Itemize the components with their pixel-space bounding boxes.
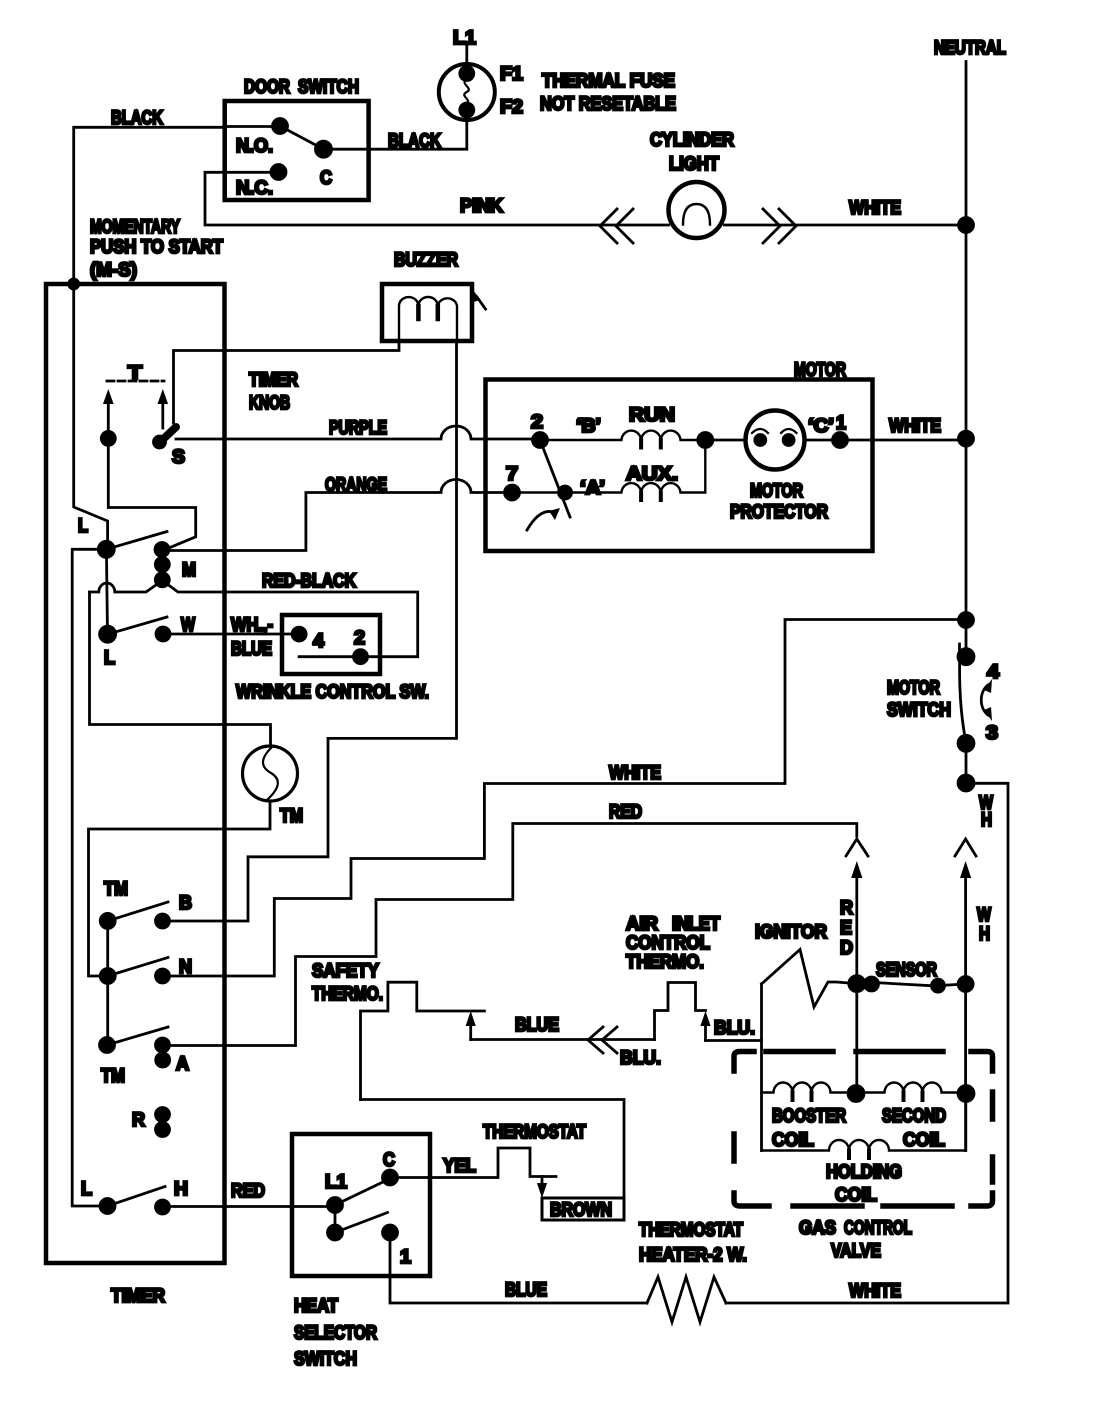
- contact B fixed: [156, 914, 170, 928]
- svg-text:L: L: [104, 648, 115, 669]
- junction motor switch top: [959, 613, 974, 628]
- motor AUX winding: [512, 440, 705, 500]
- svg-text:HEAT: HEAT: [294, 1296, 338, 1317]
- svg-text:PROTECTOR: PROTECTOR: [730, 502, 828, 523]
- connector chevrons right of cylinder light: [763, 209, 796, 243]
- junction neutral/pink: [959, 218, 974, 233]
- label L (below W pivot): [104, 648, 115, 669]
- label MOMENTARY PUSH TO START (M-S): [90, 217, 223, 281]
- svg-text:CYLINDER: CYLINDER: [650, 130, 734, 151]
- label TM (A): [101, 1066, 125, 1087]
- heat selector lower pivot: [328, 1205, 343, 1240]
- label W H (upper right): [979, 793, 993, 831]
- air inlet control thermo symbol: [655, 983, 706, 1040]
- label TM (light): [280, 806, 303, 827]
- wire buzzer to B contact staircase: [163, 341, 457, 921]
- svg-text:WHITE: WHITE: [889, 416, 941, 437]
- svg-text:2: 2: [531, 412, 543, 433]
- label R E D (vertical): [840, 898, 853, 959]
- svg-text:7: 7: [506, 464, 518, 485]
- wire RED vertical with arrow: [851, 861, 862, 1094]
- contact R pair: [156, 1108, 170, 1137]
- svg-text:‘A’: ‘A’: [580, 478, 605, 499]
- door switch contact C: [316, 141, 333, 189]
- blade A: [107, 1027, 168, 1045]
- svg-text:CONTROL: CONTROL: [844, 1218, 912, 1239]
- label WH.,- BLUE: [231, 615, 273, 660]
- svg-text:RED: RED: [609, 802, 642, 823]
- svg-text:SENSOR: SENSOR: [876, 960, 937, 981]
- svg-text:PUSH TO START: PUSH TO START: [90, 237, 223, 258]
- svg-text:MOTOR: MOTOR: [887, 678, 940, 699]
- label THERMAL FUSE NOT RESETABLE: [540, 71, 676, 115]
- svg-text:W: W: [977, 905, 991, 926]
- svg-text:H: H: [981, 810, 992, 831]
- svg-text:BUZZER: BUZZER: [394, 250, 458, 271]
- label THERMOSTAT: [483, 1122, 586, 1143]
- svg-text:THERMOSTAT: THERMOSTAT: [639, 1220, 743, 1241]
- svg-text:MOMENTARY: MOMENTARY: [90, 217, 180, 238]
- label MOTOR SWITCH: [887, 678, 951, 721]
- junction booster/second/red: [848, 1086, 864, 1102]
- wire TM light bottom to N pivot: [89, 801, 271, 976]
- contact H fixed: [156, 1200, 170, 1214]
- motor terminal 1: [833, 413, 848, 448]
- wire ORANGE M to motor terminal 7: [164, 480, 512, 551]
- wrinkle control terminal 2: [354, 628, 368, 664]
- wire red-black bus to TM light top: [90, 592, 271, 746]
- label MOTOR PROTECTOR: [730, 481, 828, 523]
- label N: [179, 957, 192, 978]
- label 'A': [580, 478, 605, 499]
- svg-text:ORANGE: ORANGE: [325, 475, 387, 496]
- second coil: [863, 1083, 959, 1152]
- cylinder light: [669, 182, 725, 238]
- label RED-BLACK: [262, 571, 356, 592]
- wire protector to terminal 1: [805, 439, 841, 442]
- wire BLU to ignitor: [706, 1039, 762, 1042]
- door switch blade N.O.-C: [280, 126, 324, 149]
- svg-text:BLU.: BLU.: [620, 1048, 661, 1069]
- svg-text:SWITCH: SWITCH: [298, 77, 359, 98]
- svg-text:THERMO.: THERMO.: [626, 952, 704, 973]
- wire BLACK from door switch to timer bus: [74, 127, 280, 283]
- contact TM/A pivot: [100, 1038, 115, 1053]
- label YEL: [443, 1156, 476, 1177]
- label L (bottom): [81, 1179, 92, 1200]
- buzzer coil: [399, 297, 457, 341]
- gas control valve dashed enclosure: [734, 1052, 993, 1207]
- label GAS CONTROL VALVE: [799, 1218, 912, 1262]
- junction sensor right: [958, 977, 973, 992]
- heat selector terminal C: [383, 1150, 398, 1185]
- svg-text:TIMER: TIMER: [111, 1286, 165, 1307]
- svg-text:R: R: [840, 898, 853, 919]
- label WHITE (top): [849, 198, 901, 219]
- wire thermal fuse to door switch C (BLACK): [324, 120, 467, 149]
- svg-text:THERMO.: THERMO.: [312, 984, 383, 1005]
- door switch contact N.O.: [236, 119, 288, 158]
- label DOOR SWITCH: [244, 77, 359, 98]
- wire WH sensor line with arrow: [960, 861, 971, 1151]
- wrinkle control switch box: [282, 615, 380, 674]
- svg-text:TM: TM: [104, 879, 128, 900]
- label R: [132, 1110, 145, 1131]
- label BLUE (bottom): [505, 1280, 547, 1301]
- wrinkle control inner wire: [299, 655, 353, 658]
- label B: [179, 893, 192, 914]
- svg-text:COIL: COIL: [903, 1130, 945, 1151]
- label THERMOSTAT HEATER-2 W.: [639, 1220, 747, 1266]
- junction dot left arrow: [101, 431, 115, 445]
- contact W fixed: [156, 627, 170, 641]
- label A: [176, 1054, 189, 1075]
- wire white return right side: [726, 783, 1008, 1303]
- blade B: [108, 902, 168, 921]
- svg-text:RED: RED: [231, 1181, 265, 1202]
- motor terminal 7: [505, 464, 520, 500]
- wire BLUE safety thermo to air inlet thermo: [471, 1038, 655, 1041]
- label MOTOR: [794, 360, 846, 381]
- svg-text:COIL: COIL: [835, 1185, 877, 1206]
- svg-text:R: R: [132, 1110, 145, 1131]
- label WHITE (mid): [609, 763, 661, 784]
- wire RED-BLACK M contact to wrinkle control 2: [90, 581, 418, 657]
- motor box: [486, 380, 873, 552]
- label TIMER: [111, 1286, 165, 1307]
- wire WHITE N contact staircase to motor switch: [163, 620, 967, 977]
- svg-text:SAFETY: SAFETY: [312, 961, 379, 982]
- buzzer flag arrow: [470, 286, 486, 309]
- wire WH-BLUE W contact to wrinkle control 4: [163, 633, 299, 636]
- label M: [182, 560, 196, 581]
- label L (upper): [78, 516, 88, 537]
- svg-text:F1: F1: [500, 64, 523, 85]
- sensor pivot: [865, 977, 879, 991]
- motor switch contact 3: [958, 723, 998, 751]
- heat selector switch box: [292, 1134, 430, 1276]
- wire neutral to motor switch 4: [965, 620, 968, 657]
- svg-text:HOLDING: HOLDING: [826, 1162, 902, 1183]
- svg-text:TIMER: TIMER: [249, 370, 298, 391]
- label TM (B): [104, 879, 128, 900]
- motor terminal 2: [531, 412, 548, 448]
- wire push-start linkage to M contact: [108, 438, 195, 550]
- svg-text:TM: TM: [101, 1066, 125, 1087]
- wire NEUTRAL vertical: [965, 62, 968, 621]
- label ORANGE: [325, 475, 387, 496]
- safety thermo arrow to BLUE: [466, 1011, 476, 1040]
- contact TM/B pivot: [100, 913, 115, 928]
- svg-text:D: D: [840, 938, 853, 959]
- safety thermostat symbol: [361, 982, 485, 1099]
- label 'B': [576, 416, 601, 437]
- svg-text:BOOSTER: BOOSTER: [772, 1106, 846, 1127]
- svg-text:N.C.: N.C.: [236, 178, 273, 199]
- connector chevron WH line: [955, 839, 976, 856]
- svg-text:L1: L1: [325, 1172, 347, 1193]
- motor switch contact 4: [958, 649, 999, 683]
- label S: [172, 447, 185, 468]
- motor switch rotation arc: [981, 679, 992, 721]
- contact S blade: [154, 427, 177, 448]
- svg-text:SWITCH: SWITCH: [294, 1349, 357, 1370]
- svg-text:B: B: [179, 893, 192, 914]
- svg-text:BLACK: BLACK: [388, 131, 441, 152]
- label PURPLE: [329, 418, 387, 439]
- timer knob T symbol: [107, 363, 164, 384]
- label BLACK (left): [111, 108, 163, 129]
- blade N: [108, 958, 168, 977]
- contact W pivot: [100, 626, 116, 642]
- label 'C': [808, 416, 834, 437]
- blade L-H: [108, 1187, 166, 1207]
- wire bus black jog to L pivot: [74, 284, 108, 543]
- wire WHITE cylinder light to neutral: [725, 224, 967, 227]
- svg-text:1: 1: [400, 1247, 411, 1268]
- label WRINKLE CONTROL SW.: [236, 682, 429, 703]
- ignitor: [762, 950, 857, 1008]
- svg-text:4: 4: [987, 662, 999, 683]
- wire RED H contact to heat selector L1: [163, 1205, 336, 1208]
- sensor fixed contact: [932, 979, 945, 992]
- svg-text:L: L: [81, 1179, 92, 1200]
- svg-text:CONTROL: CONTROL: [626, 933, 710, 954]
- blade W: [108, 617, 167, 634]
- blade L: [106, 532, 167, 550]
- svg-text:AIR: AIR: [626, 914, 658, 935]
- svg-text:PINK: PINK: [460, 196, 503, 217]
- svg-text:IGNITOR: IGNITOR: [755, 922, 827, 943]
- svg-text:BLUE: BLUE: [231, 639, 272, 660]
- svg-text:H: H: [979, 924, 990, 945]
- motor switch rotation arrow: [527, 508, 560, 530]
- motor RUN winding: [540, 405, 705, 448]
- svg-text:HEATER-2 W.: HEATER-2 W.: [639, 1245, 747, 1266]
- sensor blade: [874, 983, 936, 987]
- wire buzzer feed from S contact: [174, 342, 400, 423]
- junction neutral/motor white: [959, 431, 974, 446]
- label RED (mid): [609, 802, 642, 823]
- wire ignitor vertical to gas valve: [760, 984, 763, 1151]
- svg-text:1: 1: [836, 413, 846, 434]
- label WHITE (motor): [889, 416, 941, 437]
- wrinkle control terminal 4: [292, 627, 324, 652]
- node L1 label: [453, 28, 476, 49]
- actuator arrow left (push): [103, 389, 114, 438]
- svg-text:N.O.: N.O.: [236, 136, 273, 157]
- wire pivot chain B-N-A: [106, 921, 109, 1045]
- wire PURPLE S to motor terminal 2: [176, 426, 540, 439]
- svg-text:E: E: [840, 918, 852, 939]
- svg-text:3: 3: [986, 723, 998, 744]
- svg-text:WHITE: WHITE: [849, 198, 901, 219]
- heat selector blade lower: [335, 1213, 388, 1233]
- svg-text:YEL: YEL: [443, 1156, 476, 1177]
- junction run/aux: [698, 433, 713, 448]
- label PINK: [460, 196, 503, 217]
- svg-text:(M-S): (M-S): [90, 260, 137, 281]
- svg-text:C: C: [383, 1150, 395, 1171]
- label WHITE (bottom): [849, 1281, 901, 1302]
- svg-text:SECOND: SECOND: [882, 1106, 946, 1127]
- svg-text:WHITE: WHITE: [609, 763, 661, 784]
- svg-text:WHITE: WHITE: [849, 1281, 901, 1302]
- thermostat heater resistor: [647, 1277, 726, 1322]
- thermal fuse F1/F2: [439, 64, 524, 120]
- svg-text:PURPLE: PURPLE: [329, 418, 387, 439]
- motor aux contact dot: [559, 486, 572, 499]
- booster coil: [762, 1083, 850, 1152]
- svg-text:RED-BLACK: RED-BLACK: [262, 571, 356, 592]
- svg-text:TM: TM: [280, 806, 303, 827]
- wire RED A contact staircase to gas valve: [163, 824, 857, 1046]
- svg-text:THERMOSTAT: THERMOSTAT: [483, 1122, 586, 1143]
- BROWN label box: [542, 1198, 624, 1221]
- motor switch blade: [960, 644, 966, 740]
- contact L pivot (bottom): [100, 1199, 115, 1214]
- svg-text:‘B’: ‘B’: [576, 416, 601, 437]
- svg-text:F2: F2: [500, 97, 523, 118]
- svg-text:GAS: GAS: [799, 1218, 836, 1239]
- connector chevron RED line: [846, 839, 868, 856]
- label W: [181, 615, 195, 636]
- label W H (lower right): [977, 905, 991, 945]
- svg-text:BLUE: BLUE: [505, 1280, 547, 1301]
- wire YEL C to thermostat: [390, 1148, 556, 1178]
- wire bus L pivot down to bottom L contact: [72, 549, 107, 1206]
- label IGNITOR: [755, 922, 827, 943]
- svg-text:VALVE: VALVE: [831, 1241, 881, 1262]
- contact L pivot: [98, 541, 114, 557]
- label RED (bottom): [231, 1181, 265, 1202]
- junction second/wh: [958, 1086, 974, 1102]
- buzzer box: [382, 284, 472, 341]
- svg-text:SELECTOR: SELECTOR: [294, 1323, 377, 1344]
- svg-text:AUX.: AUX.: [626, 464, 678, 485]
- svg-text:BLUE: BLUE: [515, 1015, 559, 1036]
- svg-text:SWITCH: SWITCH: [887, 700, 951, 721]
- contact M (3 dots): [155, 543, 169, 587]
- label SAFETY THERMO.: [312, 961, 383, 1005]
- wire motor switch 3 to bottom junction: [965, 743, 968, 783]
- svg-text:NOT RESETABLE: NOT RESETABLE: [540, 94, 676, 115]
- svg-text:LIGHT: LIGHT: [669, 154, 719, 175]
- connector chevrons left of cylinder light: [600, 209, 633, 243]
- svg-text:M: M: [182, 560, 196, 581]
- svg-text:INLET: INLET: [672, 914, 720, 935]
- svg-text:COIL: COIL: [772, 1130, 814, 1151]
- label BLACK (right): [388, 131, 441, 152]
- svg-text:DOOR: DOOR: [244, 77, 290, 98]
- motor protector: [746, 411, 805, 470]
- timer light TM: [243, 746, 298, 801]
- svg-text:THERMAL FUSE: THERMAL FUSE: [542, 71, 675, 92]
- label NEUTRAL: [934, 38, 1006, 59]
- svg-text:H: H: [174, 1179, 188, 1200]
- actuator arrow right (push): [158, 389, 169, 428]
- label BLU. (left): [620, 1048, 661, 1069]
- label BLUE: [515, 1015, 559, 1036]
- wire WHITE motor to neutral: [840, 439, 966, 442]
- contact A fixed pair: [156, 1038, 170, 1067]
- door switch contact N.C.: [236, 165, 286, 200]
- svg-text:WH.,-: WH.,-: [231, 615, 273, 636]
- timer box: [46, 284, 225, 1263]
- heat selector blade L1-C: [335, 1180, 387, 1205]
- svg-text:S: S: [172, 447, 185, 468]
- svg-text:L: L: [78, 516, 88, 537]
- heat selector terminal L1: [325, 1172, 347, 1213]
- svg-text:WRINKLE CONTROL SW.: WRINKLE CONTROL SW.: [236, 682, 429, 703]
- motor centrifugal switch blade: [540, 440, 570, 517]
- svg-text:A: A: [176, 1054, 189, 1075]
- contact N fixed: [156, 969, 170, 983]
- label BUZZER: [394, 250, 458, 271]
- svg-text:BLU.: BLU.: [714, 1018, 755, 1039]
- svg-text:MOTOR: MOTOR: [750, 481, 803, 502]
- wire junction to motor protector: [705, 439, 745, 442]
- label SENSOR: [876, 960, 937, 981]
- label BLU. (right): [714, 1018, 755, 1039]
- svg-text:‘C’: ‘C’: [808, 416, 834, 437]
- wire PINK from N.C. to cylinder light: [205, 172, 669, 225]
- svg-text:NEUTRAL: NEUTRAL: [934, 38, 1006, 59]
- thermostat arrow to BROWN: [537, 1177, 547, 1199]
- svg-text:KNOB: KNOB: [249, 393, 290, 414]
- holding coil on bottom rail: [762, 1094, 967, 1207]
- svg-text:BROWN: BROWN: [550, 1200, 612, 1221]
- door switch box: [225, 101, 369, 200]
- wire safety thermo to BROWN: [361, 1100, 625, 1199]
- wire L1 to thermal fuse: [465, 46, 468, 64]
- svg-text:2: 2: [354, 628, 365, 649]
- svg-text:RUN: RUN: [629, 405, 675, 426]
- label AIR INLET CONTROL THERMO.: [626, 914, 720, 973]
- wire L pivot to W pivot: [107, 556, 108, 634]
- junction motor switch bottom: [958, 775, 974, 791]
- wire BLUE heat selector 1 to thermostat heater: [390, 1233, 647, 1304]
- label H: [174, 1179, 188, 1200]
- junction bus/timer box top: [69, 279, 79, 289]
- svg-text:C: C: [320, 168, 332, 189]
- contact N pivot: [100, 969, 115, 984]
- svg-text:BLACK: BLACK: [111, 108, 163, 129]
- label HEAT SELECTOR SWITCH: [294, 1296, 377, 1370]
- connector chevrons BLU: [588, 1027, 617, 1053]
- air inlet thermo arrow to BLU: [700, 1011, 710, 1041]
- svg-text:MOTOR: MOTOR: [794, 360, 846, 381]
- label TIMER KNOB: [249, 370, 298, 414]
- label CYLINDER LIGHT: [650, 130, 734, 175]
- svg-text:4: 4: [313, 631, 324, 652]
- wire sensor to WH line: [938, 984, 966, 986]
- svg-text:L1: L1: [453, 28, 476, 49]
- heat selector terminal 1: [383, 1225, 412, 1268]
- junction sensor left: [849, 976, 865, 992]
